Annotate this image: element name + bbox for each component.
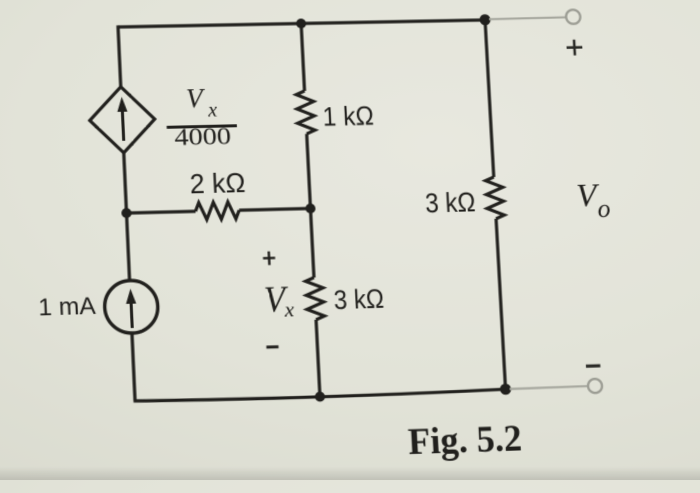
polarity - at bottom terminal xyxy=(586,364,600,368)
node: bottom-right junction dot xyxy=(500,384,512,395)
resistor R3 3 kOhm (vertical zigzag, Vx) xyxy=(305,277,324,320)
label: 3 kOhm value (right) xyxy=(424,186,476,219)
svg-text:2 kΩ: 2 kΩ xyxy=(189,166,246,199)
wire middle horizontal (to 2k resistor) left segment xyxy=(127,211,196,213)
node: middle-branch junction dot at 2k wire xyxy=(305,203,316,213)
resistor R4 3 kOhm (vertical zigzag, right branch) xyxy=(485,177,504,219)
wire bottom (node B: bottom rail) xyxy=(133,389,505,402)
wire: thin lead to top output terminal xyxy=(489,17,566,19)
current source I1 1 mA (circle with up arrow) xyxy=(104,280,159,334)
wire middle branch upper xyxy=(301,23,304,90)
wire left branch upper xyxy=(118,25,121,86)
svg-text:x: x xyxy=(207,100,218,122)
node: left-middle junction dot xyxy=(121,208,132,218)
polarity + of Vx xyxy=(263,251,276,265)
svg-text:o: o xyxy=(597,194,611,223)
svg-text:3 kΩ: 3 kΩ xyxy=(424,186,476,219)
wire middle horizontal right segment xyxy=(239,208,310,210)
wire middle branch lower xyxy=(316,320,320,397)
polarity - of Vx xyxy=(266,345,278,348)
label: 1 kOhm value xyxy=(322,100,375,132)
svg-text:3 kΩ: 3 kΩ xyxy=(333,283,385,315)
svg-text:x: x xyxy=(283,297,295,321)
resistor R2 2 kOhm (horizontal zigzag) xyxy=(195,202,239,220)
label: 2 kOhm value xyxy=(189,166,246,199)
wire right branch lower xyxy=(496,219,505,389)
svg-text:1 mA: 1 mA xyxy=(38,293,97,322)
svg-text:Fig. 5.2: Fig. 5.2 xyxy=(407,418,523,463)
wire middle branch center xyxy=(307,134,314,278)
label: 1 mA value xyxy=(38,293,97,322)
label: 3 kOhm value (middle) xyxy=(333,283,385,315)
terminal: bottom output (open circle) xyxy=(588,379,603,393)
node: bottom-middle junction dot xyxy=(315,391,326,401)
label: 4000 denominator xyxy=(174,123,232,151)
label: Vx voltage across middle 3k xyxy=(263,280,295,322)
resistor R1 1 kOhm (vertical zigzag) xyxy=(296,91,315,134)
wire left branch lower xyxy=(132,333,135,401)
svg-text:V: V xyxy=(185,83,206,113)
wire: thin lead to bottom output terminal xyxy=(510,386,588,389)
svg-text:4000: 4000 xyxy=(174,123,232,151)
wire left branch middle xyxy=(124,153,130,281)
terminal: top output (open circle) xyxy=(566,10,581,24)
svg-text:1 kΩ: 1 kΩ xyxy=(322,100,375,132)
node: top-middle junction dot xyxy=(296,18,307,28)
dependent current source U1 (diamond, Vx/4000) xyxy=(88,86,156,153)
node: top-right junction dot xyxy=(479,14,490,25)
label: Vx numerator of dependent source value xyxy=(185,83,217,122)
caption: Fig. 5.2 xyxy=(407,418,523,463)
polarity + at top terminal xyxy=(566,39,583,55)
fraction bar of Vx/4000 xyxy=(167,126,237,128)
wire top (node A: top rail) xyxy=(118,20,485,27)
label: Vo output voltage xyxy=(575,177,611,224)
wire right branch upper xyxy=(485,20,494,177)
